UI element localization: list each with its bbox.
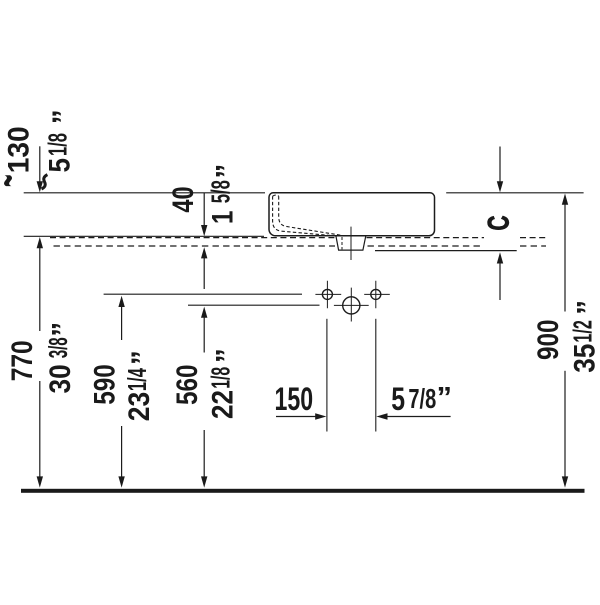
svg-text:590: 590	[88, 364, 121, 405]
label 23 1/4 inch	[122, 350, 159, 421]
590 extension line (horizontal)	[104, 293, 302, 295]
arrowhead 560 down at floor	[201, 476, 207, 487]
label 30 3/8 inch	[43, 322, 80, 394]
basin interior profile dashed inner	[279, 196, 342, 235]
faucet hole small right circle	[371, 289, 381, 299]
top extension line left (basin rim level)	[24, 192, 265, 194]
svg-text:”: ”	[126, 350, 159, 365]
hole pitch extension line left vertical	[326, 319, 328, 432]
dim 560 line upper segment	[203, 317, 205, 353]
drain interior dashed line	[341, 237, 343, 249]
dim 40 lower arrow tail	[203, 258, 205, 290]
dashed line row B (counter bottom)	[54, 245, 547, 247]
svg-text:40: 40	[167, 186, 200, 212]
dim ~130 line with arrow down	[39, 146, 41, 182]
svg-text:35: 35	[568, 344, 600, 373]
label 22 1/8 inch	[206, 348, 244, 419]
svg-text:22: 22	[207, 390, 240, 419]
label 5 1/8 inch	[42, 109, 80, 172]
dim 770 line lower segment	[39, 381, 41, 477]
crosshair large circle	[334, 288, 369, 322]
svg-text:150: 150	[275, 381, 314, 417]
svg-text:3/8: 3/8	[43, 337, 73, 358]
svg-text:1: 1	[206, 211, 239, 224]
label 5 7/8 inch	[391, 381, 452, 417]
dim C upper line	[499, 147, 501, 183]
svg-text:7/8: 7/8	[408, 383, 436, 414]
arrowhead 590 up	[118, 296, 124, 307]
top extension line right (basin rim level)	[446, 192, 583, 194]
svg-text:”: ”	[47, 109, 80, 124]
svg-text:5: 5	[391, 381, 405, 417]
arrowhead 770 down at floor	[37, 476, 43, 487]
svg-text:560: 560	[171, 364, 204, 405]
arrowhead 150 pointing right	[315, 413, 326, 419]
dim 770 line upper segment	[39, 248, 41, 332]
svg-text:5/8: 5/8	[205, 180, 235, 203]
label 35 1/2 inch	[567, 300, 600, 373]
counter bottom solid line right	[375, 250, 517, 252]
counter top line left	[24, 235, 264, 237]
dim 900 lower segment	[564, 371, 566, 477]
dim 150 arrow line left	[276, 416, 316, 418]
svg-text:5: 5	[43, 158, 76, 173]
svg-text:C: C	[483, 216, 516, 231]
arrowhead 40 up	[201, 247, 207, 258]
washbasin outline	[269, 193, 435, 236]
crosshair small left circle	[315, 281, 341, 309]
svg-text:”: ”	[211, 348, 244, 363]
svg-text:”: ”	[211, 164, 244, 179]
dim 40 upper line	[203, 193, 205, 226]
560 extension line (horizontal)	[188, 304, 320, 306]
svg-text:1/2: 1/2	[567, 320, 597, 343]
faucet hole small left circle	[322, 289, 332, 299]
dim C lower arrow tail	[499, 263, 501, 301]
svg-text:1/8: 1/8	[206, 367, 236, 389]
svg-text:130: 130	[3, 126, 36, 173]
crosshair small right circle	[364, 281, 390, 309]
arrowhead 5 7/8 pointing left	[376, 413, 387, 419]
arrowhead 590 down at floor	[118, 476, 124, 487]
dim 590 line lower segment	[121, 426, 123, 477]
basin interior profile top connector	[273, 195, 279, 196]
dim 560 line lower segment	[203, 430, 205, 477]
svg-text:”: ”	[571, 300, 600, 315]
svg-text:900: 900	[532, 319, 565, 360]
svg-text:23: 23	[123, 392, 156, 422]
svg-text:30: 30	[44, 364, 77, 393]
label 1 5/8 inch	[205, 164, 243, 224]
dim 900 upper segment	[564, 204, 566, 312]
center line through drain	[350, 227, 352, 260]
arrowhead C down	[497, 181, 503, 192]
drain outline	[336, 236, 366, 250]
arrowhead 770 up	[37, 237, 43, 248]
faucet hole large circle	[343, 297, 360, 314]
squiggle tilde on ~130 dim line	[42, 175, 48, 189]
svg-text:”: ”	[47, 322, 80, 337]
arrowhead 560 up	[201, 307, 207, 318]
arrowhead 900 up	[562, 194, 568, 205]
svg-text:1/8: 1/8	[42, 133, 72, 156]
arrowhead 40 down	[201, 225, 207, 236]
svg-text:~: ~	[0, 175, 36, 188]
svg-text:770: 770	[6, 340, 39, 381]
floor line	[21, 489, 585, 493]
arrowhead C up	[497, 252, 503, 263]
basin interior profile dashed outer	[273, 196, 337, 236]
dim 5 7/8 arrow line right	[387, 416, 451, 418]
dashed line row A (counter top hidden)	[50, 237, 546, 239]
svg-text:”: ”	[437, 382, 453, 414]
arrowhead 900 down at floor	[562, 476, 568, 487]
hole pitch extension line right vertical	[375, 319, 377, 432]
dim 590 line upper segment	[121, 307, 123, 341]
svg-text:1/4: 1/4	[122, 368, 152, 391]
arrowhead ~130 down	[37, 181, 43, 192]
